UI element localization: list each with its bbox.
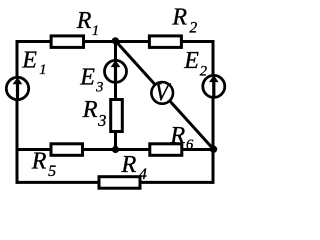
svg-text:V: V [155,79,171,106]
